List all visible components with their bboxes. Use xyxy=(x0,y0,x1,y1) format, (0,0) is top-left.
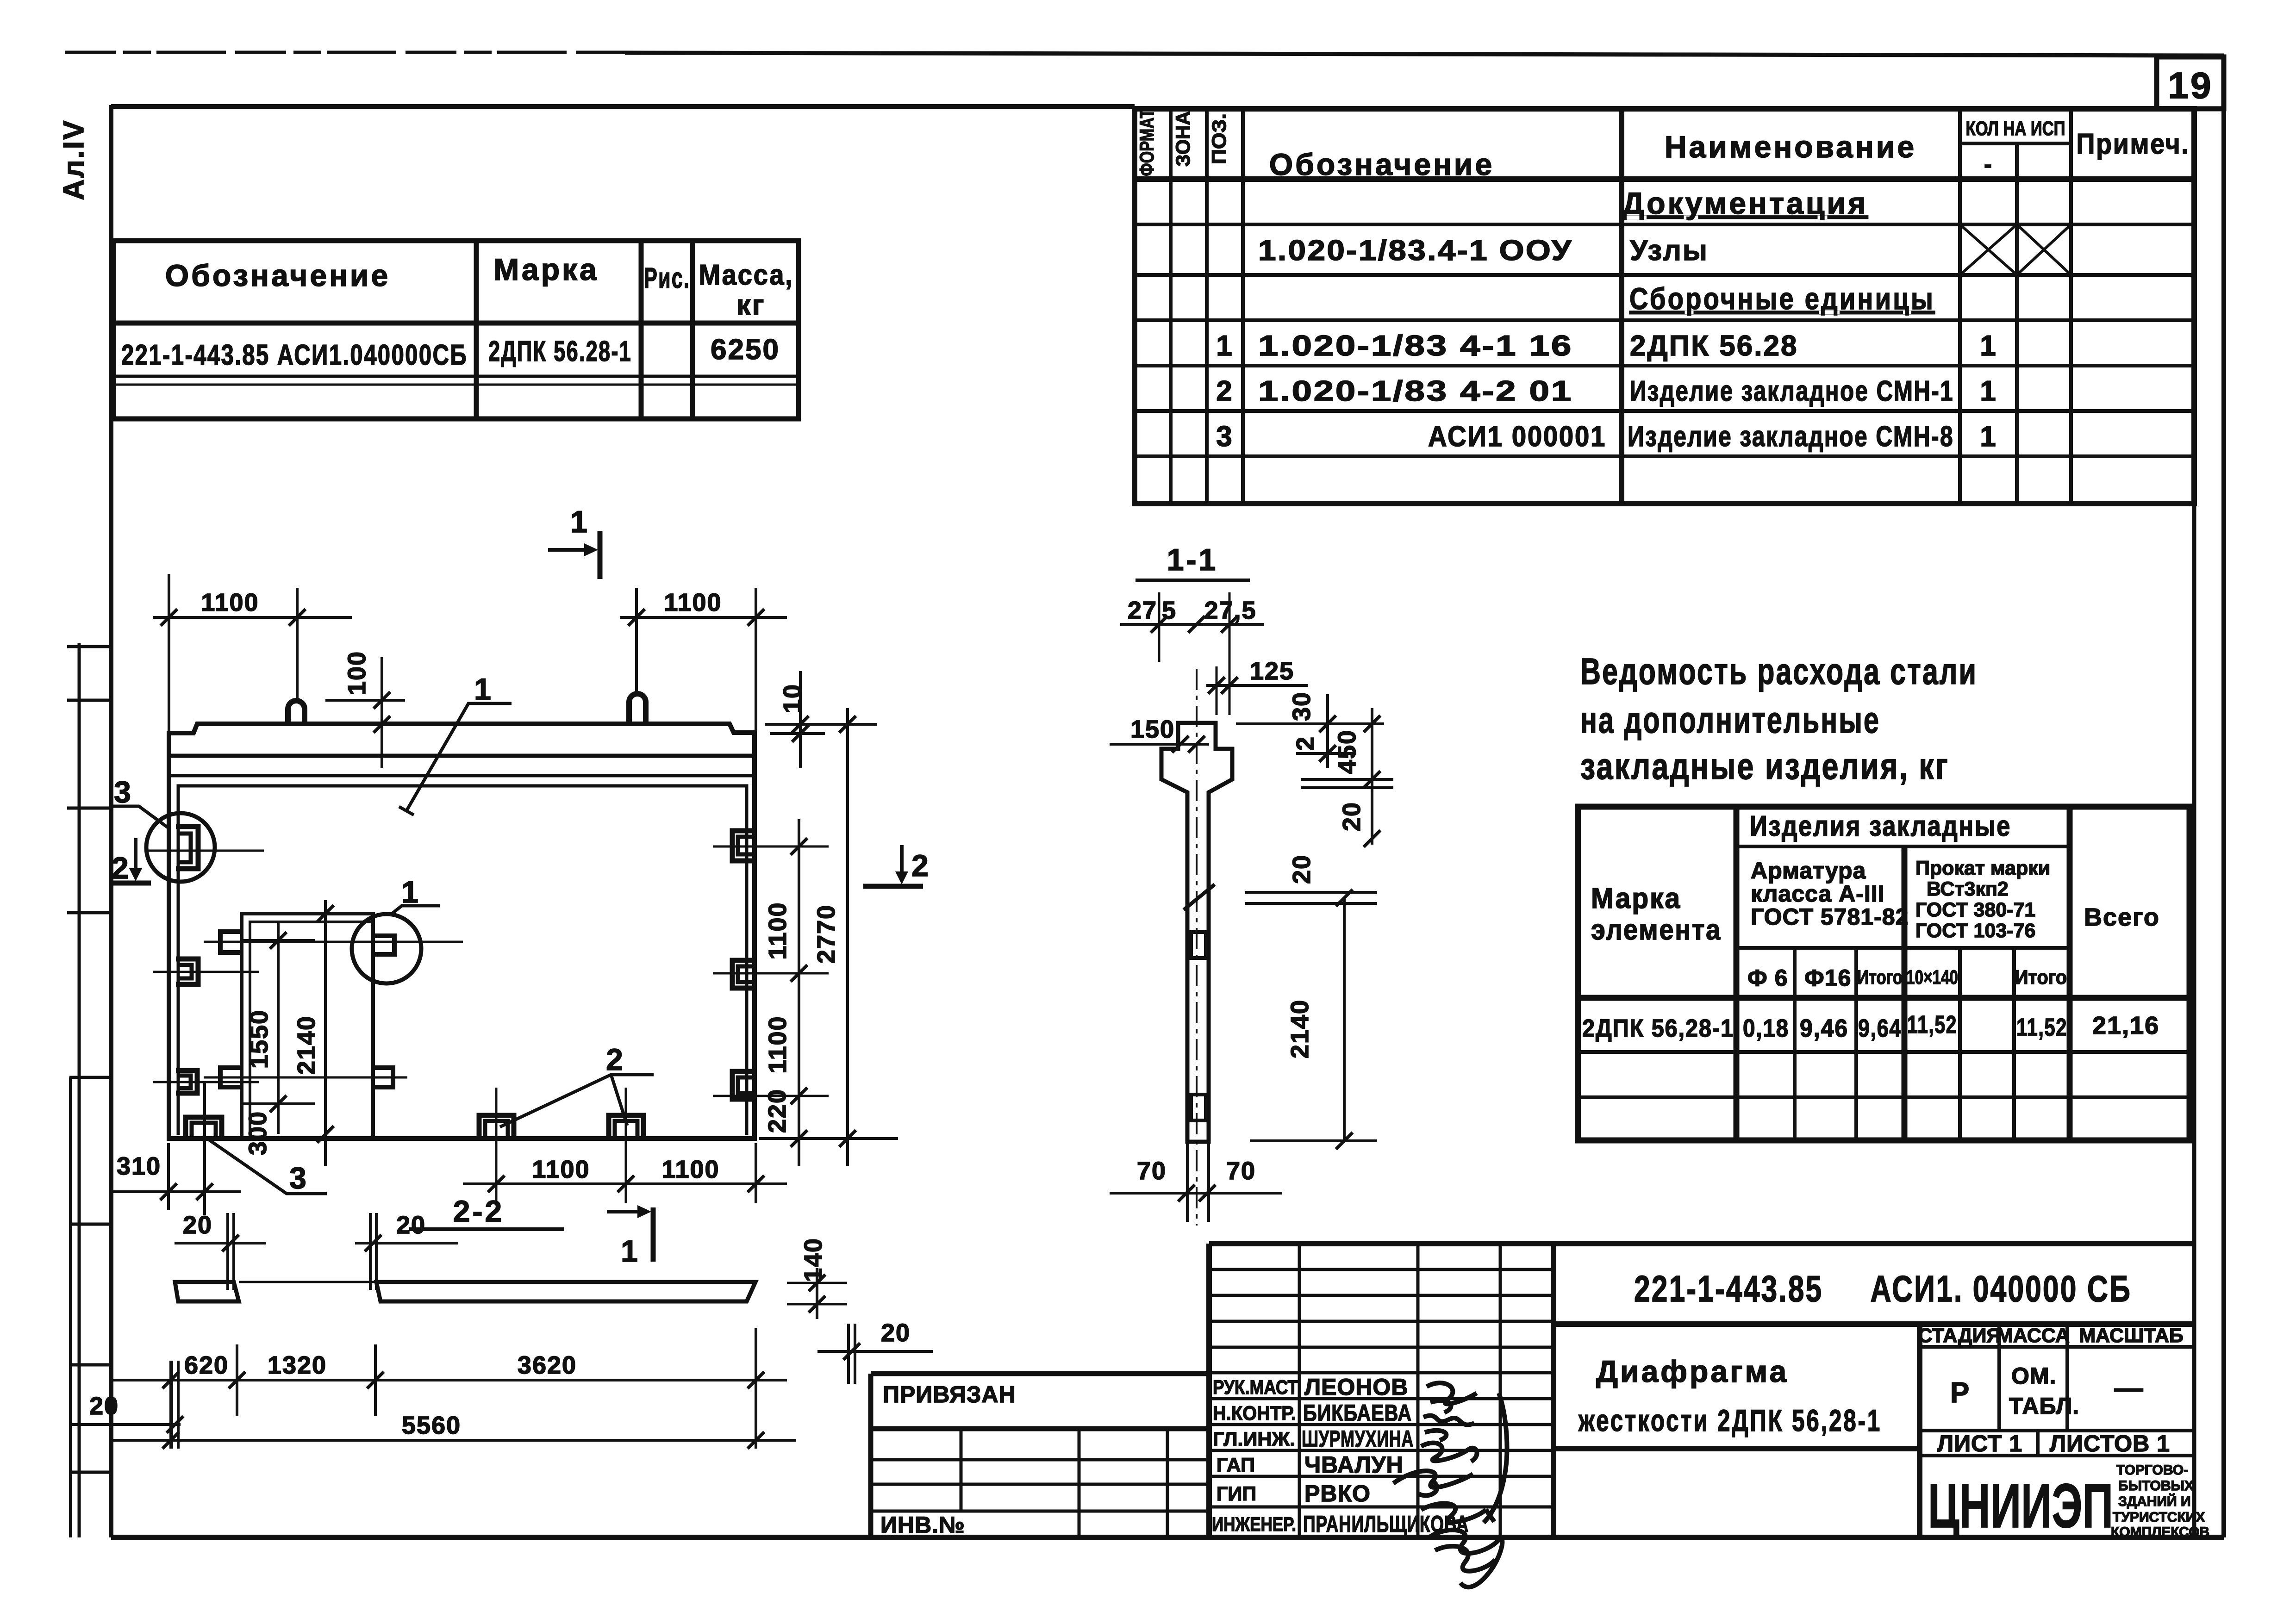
plate centre lines xyxy=(148,846,829,1203)
section 2-2 long slab piece xyxy=(376,1282,755,1301)
section mark 1 bottom xyxy=(607,1205,653,1268)
panel outline (elevation of diaphragm 2ДПК 56.28-1) xyxy=(169,724,755,1139)
embedded plate right lower xyxy=(732,1071,755,1099)
svg-text:450: 450 xyxy=(1333,729,1361,774)
embedded plate bottom-left corner xyxy=(186,1117,222,1137)
svg-text:Изделия закладные: Изделия закладные xyxy=(1750,810,2011,842)
svg-text:1: 1 xyxy=(474,672,493,706)
svg-text:9,46: 9,46 xyxy=(1800,1014,1848,1042)
member centre line xyxy=(1196,669,1198,1226)
svg-text:20: 20 xyxy=(1288,854,1316,884)
svg-text:элемента: элемента xyxy=(1591,914,1722,946)
svg-text:на дополнительные: на дополнительные xyxy=(1580,699,1880,740)
svg-text:РВКО: РВКО xyxy=(1304,1481,1371,1506)
svg-text:ИНВ.№: ИНВ.№ xyxy=(880,1512,965,1538)
svg-text:11,52: 11,52 xyxy=(1907,1011,1957,1039)
signature table xyxy=(1209,1244,2194,1587)
embedded plate 1 at door edge xyxy=(372,936,394,954)
dim 20 joint right xyxy=(817,1319,933,1384)
svg-text:МАССА: МАССА xyxy=(1997,1325,2070,1347)
sheet number box 19 xyxy=(2157,57,2224,109)
svg-text:Примеч.: Примеч. xyxy=(2077,128,2190,160)
svg-text:—: — xyxy=(2115,1372,2145,1404)
svg-text:0,18: 0,18 xyxy=(1743,1014,1789,1042)
embedded plate door edge lower xyxy=(372,1068,393,1087)
dim column 1100/1100/220 right xyxy=(763,819,807,1166)
door opening reveal line xyxy=(250,922,373,1139)
lifting loop left xyxy=(288,701,305,724)
svg-text:МАСШТАБ: МАСШТАБ xyxy=(2079,1325,2184,1347)
svg-text:70: 70 xyxy=(1226,1157,1256,1185)
embedded plate right top xyxy=(732,831,755,861)
svg-text:221-1-443.85 АСИ1.040000СБ: 221-1-443.85 АСИ1.040000СБ xyxy=(121,339,468,371)
svg-text:Документация: Документация xyxy=(1622,186,1868,220)
svg-text:10: 10 xyxy=(779,684,806,713)
svg-text:Ведомость расхода стали: Ведомость расхода стали xyxy=(1580,651,1978,692)
section mark 1 top xyxy=(548,504,600,579)
svg-text:300: 300 xyxy=(244,1111,272,1155)
svg-text:БИКБАЕВА: БИКБАЕВА xyxy=(1303,1400,1412,1426)
svg-text:КОЛ НА ИСП: КОЛ НА ИСП xyxy=(1966,118,2065,140)
section 2-2 opening line xyxy=(239,1281,376,1283)
svg-text:Марка: Марка xyxy=(1591,883,1681,915)
svg-text:100: 100 xyxy=(343,651,371,695)
svg-text:Итого: Итого xyxy=(2015,966,2067,989)
svg-text:ПРИВЯЗАН: ПРИВЯЗАН xyxy=(883,1381,1016,1407)
svg-text:ФОРМАТ: ФОРМАТ xyxy=(1136,109,1158,176)
embedded plate in section upper xyxy=(1191,932,1206,958)
svg-text:1100: 1100 xyxy=(201,589,259,616)
embedded plate pier top xyxy=(220,932,240,952)
institute stamp ЦНИИЭП xyxy=(1928,1462,2209,1541)
svg-text:Ф16: Ф16 xyxy=(1804,965,1851,991)
svg-text:закладные изделия, кг: закладные изделия, кг xyxy=(1580,746,1949,787)
svg-text:ТУРИСТСКИХ: ТУРИСТСКИХ xyxy=(2113,1510,2205,1525)
embedded plate in section lower xyxy=(1191,1095,1206,1120)
sheet bottom border line xyxy=(111,1535,2224,1540)
drawing title box xyxy=(1554,1324,1920,1537)
svg-text:ГОСТ 103-76: ГОСТ 103-76 xyxy=(1915,920,2035,942)
embedded plate left middle xyxy=(176,959,198,984)
svg-text:Н.КОНТР.: Н.КОНТР. xyxy=(1213,1402,1296,1425)
svg-text:20: 20 xyxy=(183,1211,212,1239)
svg-text:Сборочные единицы: Сборочные единицы xyxy=(1629,281,1935,316)
svg-text:Изделие закладное СМН-1: Изделие закладное СМН-1 xyxy=(1630,375,1954,407)
embedded plate pier bottom xyxy=(220,1068,240,1087)
top-left marks table xyxy=(113,241,799,419)
dim 70 / 70 bottom xyxy=(1110,1142,1282,1222)
svg-text:РУК.МАСТ: РУК.МАСТ xyxy=(1213,1376,1298,1399)
svg-text:3: 3 xyxy=(114,775,133,809)
section mark 2 right xyxy=(863,845,931,886)
svg-text:5560: 5560 xyxy=(402,1412,461,1439)
door opening outline xyxy=(242,914,373,1139)
svg-text:ЛЕОНОВ: ЛЕОНОВ xyxy=(1304,1374,1408,1400)
svg-text:ГЛ.ИНЖ.: ГЛ.ИНЖ. xyxy=(1213,1428,1295,1450)
svg-text:27: 27 xyxy=(1128,597,1157,624)
svg-text:Рис.: Рис. xyxy=(644,262,690,294)
svg-text:АСИ1 000001: АСИ1 000001 xyxy=(1428,421,1606,453)
svg-text:1: 1 xyxy=(1216,330,1233,362)
svg-text:Р: Р xyxy=(1950,1377,1971,1409)
dim 5560 overall xyxy=(111,1412,796,1449)
leader 3 upper xyxy=(111,775,170,829)
view title 2-2 xyxy=(409,1194,564,1229)
svg-text:Ф 6: Ф 6 xyxy=(1747,965,1788,991)
fold tick marks xyxy=(67,647,111,1472)
svg-text:ЗОНА: ЗОНА xyxy=(1172,111,1194,167)
svg-text:1550: 1550 xyxy=(245,1009,273,1069)
embedded plate right middle xyxy=(732,960,755,988)
svg-text:2770: 2770 xyxy=(812,904,840,964)
svg-text:125: 125 xyxy=(1250,657,1294,685)
svg-text:Узлы: Узлы xyxy=(1630,235,1709,267)
svg-text:ИНЖЕНЕР.: ИНЖЕНЕР. xyxy=(1212,1513,1296,1536)
dim 20 joint left xyxy=(70,1361,183,1449)
leader 1 upper xyxy=(399,672,512,815)
dim 10 top right edge xyxy=(765,671,877,768)
privyazan block xyxy=(871,1374,1209,1538)
section 1-1 member outline xyxy=(1161,723,1232,1142)
svg-text:БЫТОВЫХ: БЫТОВЫХ xyxy=(2118,1478,2194,1493)
svg-text:ЛИСТ 1: ЛИСТ 1 xyxy=(1937,1431,2022,1456)
svg-text:КОМПЛЕКСОВ: КОМПЛЕКСОВ xyxy=(2111,1524,2209,1540)
svg-text:ГИП: ГИП xyxy=(1217,1483,1256,1505)
svg-text:11,52: 11,52 xyxy=(2016,1014,2067,1041)
signature scribbles xyxy=(1393,1383,1507,1587)
svg-text:ОМ.: ОМ. xyxy=(2011,1363,2056,1389)
dim 1550 opening xyxy=(241,921,315,1155)
leader 1 at circle xyxy=(390,875,440,915)
svg-text:ЗДАНИЙ И: ЗДАНИЙ И xyxy=(2118,1493,2191,1509)
svg-text:Обозначение: Обозначение xyxy=(165,258,390,292)
svg-text:1100: 1100 xyxy=(661,1156,719,1183)
dim 620/1320/3620 xyxy=(111,1328,787,1449)
svg-text:1.020-1/83 4-2 01: 1.020-1/83 4-2 01 xyxy=(1258,375,1573,407)
dim 100 at loop xyxy=(325,651,405,768)
svg-text:6250: 6250 xyxy=(711,334,780,366)
svg-text:класса А-III: класса А-III xyxy=(1751,881,1885,907)
embedded plate 3 top-left xyxy=(176,827,198,869)
detail circle 1 xyxy=(352,914,421,983)
svg-text:2140: 2140 xyxy=(1286,999,1314,1058)
svg-text:ГАП: ГАП xyxy=(1217,1454,1255,1476)
sheet top border line (broken/dashed at left) xyxy=(65,52,2224,56)
embedded plate bottom middle right xyxy=(609,1115,643,1138)
svg-text:221-1-443.85 АСИ1. 040000: 221-1-443.85 АСИ1. 040000 СБ xyxy=(1634,1268,2132,1309)
svg-text:СТАДИЯ: СТАДИЯ xyxy=(1918,1325,2001,1347)
embedded plate bottom middle left xyxy=(479,1115,514,1138)
svg-text:220: 220 xyxy=(763,1089,791,1133)
svg-text:2: 2 xyxy=(1291,736,1319,751)
svg-text:9,64: 9,64 xyxy=(1858,1014,1902,1042)
stage/mass/scale grid xyxy=(1918,1324,2194,1456)
dim 30 / 2 right of head xyxy=(1236,691,1384,768)
svg-text:1: 1 xyxy=(570,504,590,539)
svg-text:150: 150 xyxy=(1130,716,1175,743)
dim 150 xyxy=(1110,716,1209,753)
svg-text:ТАБЛ.: ТАБЛ. xyxy=(2009,1393,2079,1419)
svg-text:ВСт3кп2: ВСт3кп2 xyxy=(1927,878,2009,900)
lifting loop right xyxy=(629,694,646,724)
dim 2770 overall height xyxy=(759,708,898,1166)
svg-text:Наименование: Наименование xyxy=(1665,130,1916,164)
svg-text:жесткости 2ДПК 56,28-1: жесткости 2ДПК 56,28-1 xyxy=(1578,1403,1882,1437)
svg-text:ЦНИИЭП: ЦНИИЭП xyxy=(1928,1471,2113,1541)
svg-text:2: 2 xyxy=(1216,375,1233,407)
svg-text:1100: 1100 xyxy=(764,902,792,959)
left margin fold line xyxy=(78,643,81,1537)
embedded plate left lower xyxy=(176,1070,197,1093)
svg-text:1-1: 1-1 xyxy=(1167,542,1218,577)
svg-text:10×140: 10×140 xyxy=(1906,966,1958,989)
svg-text:1: 1 xyxy=(401,875,421,909)
section 2-2 left slab piece xyxy=(175,1282,239,1301)
svg-text:2: 2 xyxy=(606,1042,625,1076)
dim 2140 opening xyxy=(293,900,334,1166)
svg-text:Обозначение: Обозначение xyxy=(1269,147,1494,181)
svg-text:ЧВАЛУН: ЧВАЛУН xyxy=(1304,1452,1404,1478)
svg-text:2140: 2140 xyxy=(293,1015,320,1075)
leader 3 lower xyxy=(206,1138,327,1195)
svg-text:1: 1 xyxy=(1980,421,1997,453)
svg-text:70: 70 xyxy=(1137,1157,1167,1185)
dim 450 / 20 xyxy=(1301,708,1393,847)
svg-text:Ал.IV: Ал.IV xyxy=(58,119,90,200)
svg-text:1.020-1/83 4-1 16: 1.020-1/83 4-1 16 xyxy=(1258,330,1573,362)
svg-text:-: - xyxy=(1984,151,1992,177)
svg-text:ГОСТ 5781-82: ГОСТ 5781-82 xyxy=(1751,904,1909,930)
crossed cells xyxy=(1960,224,2071,275)
sheet right border line xyxy=(2221,55,2226,1537)
svg-text:1320: 1320 xyxy=(268,1351,327,1379)
detail circle 3 xyxy=(146,813,215,882)
svg-text:ГОСТ 380-71: ГОСТ 380-71 xyxy=(1915,899,2035,921)
svg-text:ШУРМУХИНА: ШУРМУХИНА xyxy=(1302,1426,1414,1452)
svg-text:1100: 1100 xyxy=(532,1156,590,1183)
top band line 2 xyxy=(169,774,755,778)
svg-text:3: 3 xyxy=(289,1161,309,1195)
leader 2 to bottom plates xyxy=(500,1042,654,1127)
svg-text:2ДПК 56.28-1: 2ДПК 56.28-1 xyxy=(488,336,632,367)
svg-text:140: 140 xyxy=(799,1238,827,1282)
svg-text:1: 1 xyxy=(621,1234,640,1268)
svg-text:3: 3 xyxy=(1216,421,1233,453)
svg-text:21,16: 21,16 xyxy=(2092,1012,2159,1039)
steel consumption table xyxy=(1578,807,2190,1140)
svg-text:3620: 3620 xyxy=(518,1351,577,1379)
svg-text:27,5: 27,5 xyxy=(1204,597,1256,624)
svg-text:20: 20 xyxy=(89,1392,119,1420)
svg-text:1100: 1100 xyxy=(664,589,722,616)
svg-text:Изделие закладное СМН-8: Изделие закладное СМН-8 xyxy=(1628,421,1954,453)
dim 310 bottom left xyxy=(111,1083,241,1215)
top horizontal rule left of spec table xyxy=(111,104,1135,109)
svg-text:2-2: 2-2 xyxy=(453,1194,504,1228)
dim 125 xyxy=(1206,657,1308,715)
dim 20 below right xyxy=(355,1211,458,1290)
svg-text:ПОЗ.: ПОЗ. xyxy=(1208,113,1230,164)
dim 1100 top right xyxy=(620,588,787,731)
svg-text:20: 20 xyxy=(1338,802,1366,831)
svg-text:1: 1 xyxy=(1980,330,1997,362)
dim 20 mid / 2140 xyxy=(1245,854,1377,1149)
svg-text:Арматура: Арматура xyxy=(1751,858,1866,884)
sheet left border line xyxy=(109,105,113,1537)
svg-text:2ДПК 56.28: 2ДПК 56.28 xyxy=(1630,330,1798,362)
svg-text:30: 30 xyxy=(1288,691,1316,721)
dim 1100 top left xyxy=(153,574,352,736)
dim 1100/1100 bottom xyxy=(463,1143,787,1203)
section mark 2 left xyxy=(112,838,151,885)
svg-text:Марка: Марка xyxy=(493,252,599,286)
break mark on stem xyxy=(1184,884,1215,910)
svg-text:Итого: Итого xyxy=(1857,966,1903,989)
svg-text:20: 20 xyxy=(881,1319,911,1347)
svg-text:2: 2 xyxy=(112,851,131,885)
svg-text:Прокат марки: Прокат марки xyxy=(1915,857,2050,879)
svg-text:620: 620 xyxy=(184,1351,229,1379)
svg-text:5: 5 xyxy=(1162,597,1177,624)
svg-text:310: 310 xyxy=(117,1152,161,1180)
svg-text:Всего: Всего xyxy=(2084,903,2160,931)
document number box xyxy=(1554,1268,2194,1324)
svg-text:кг: кг xyxy=(736,289,766,321)
specification table grid xyxy=(1135,109,2194,504)
svg-text:20: 20 xyxy=(396,1211,426,1239)
svg-text:1.020-1/83.4-1 ООУ: 1.020-1/83.4-1 ООУ xyxy=(1258,235,1573,267)
svg-text:ЛИСТОВ 1: ЛИСТОВ 1 xyxy=(2050,1431,2170,1456)
svg-text:1100: 1100 xyxy=(764,1015,792,1073)
dim 140 thickness xyxy=(787,1238,847,1319)
dim 27,5 / 27,5 xyxy=(1120,592,1264,715)
svg-text:1: 1 xyxy=(1980,375,1997,407)
svg-text:ТОРГОВО-: ТОРГОВО- xyxy=(2116,1462,2188,1478)
dim 20 below left xyxy=(175,1211,266,1290)
svg-text:2ДПК 56,28-1: 2ДПК 56,28-1 xyxy=(1582,1014,1734,1042)
top band line 1 xyxy=(169,754,755,758)
svg-text:2: 2 xyxy=(911,848,931,883)
view title 1-1 xyxy=(1136,542,1250,580)
svg-text:19: 19 xyxy=(2168,65,2213,106)
svg-text:Диафрагма: Диафрагма xyxy=(1596,1354,1789,1388)
svg-text:Масса,: Масса, xyxy=(699,259,794,291)
inner face outline xyxy=(178,786,747,1135)
inner right vertical rule xyxy=(2192,109,2196,1537)
